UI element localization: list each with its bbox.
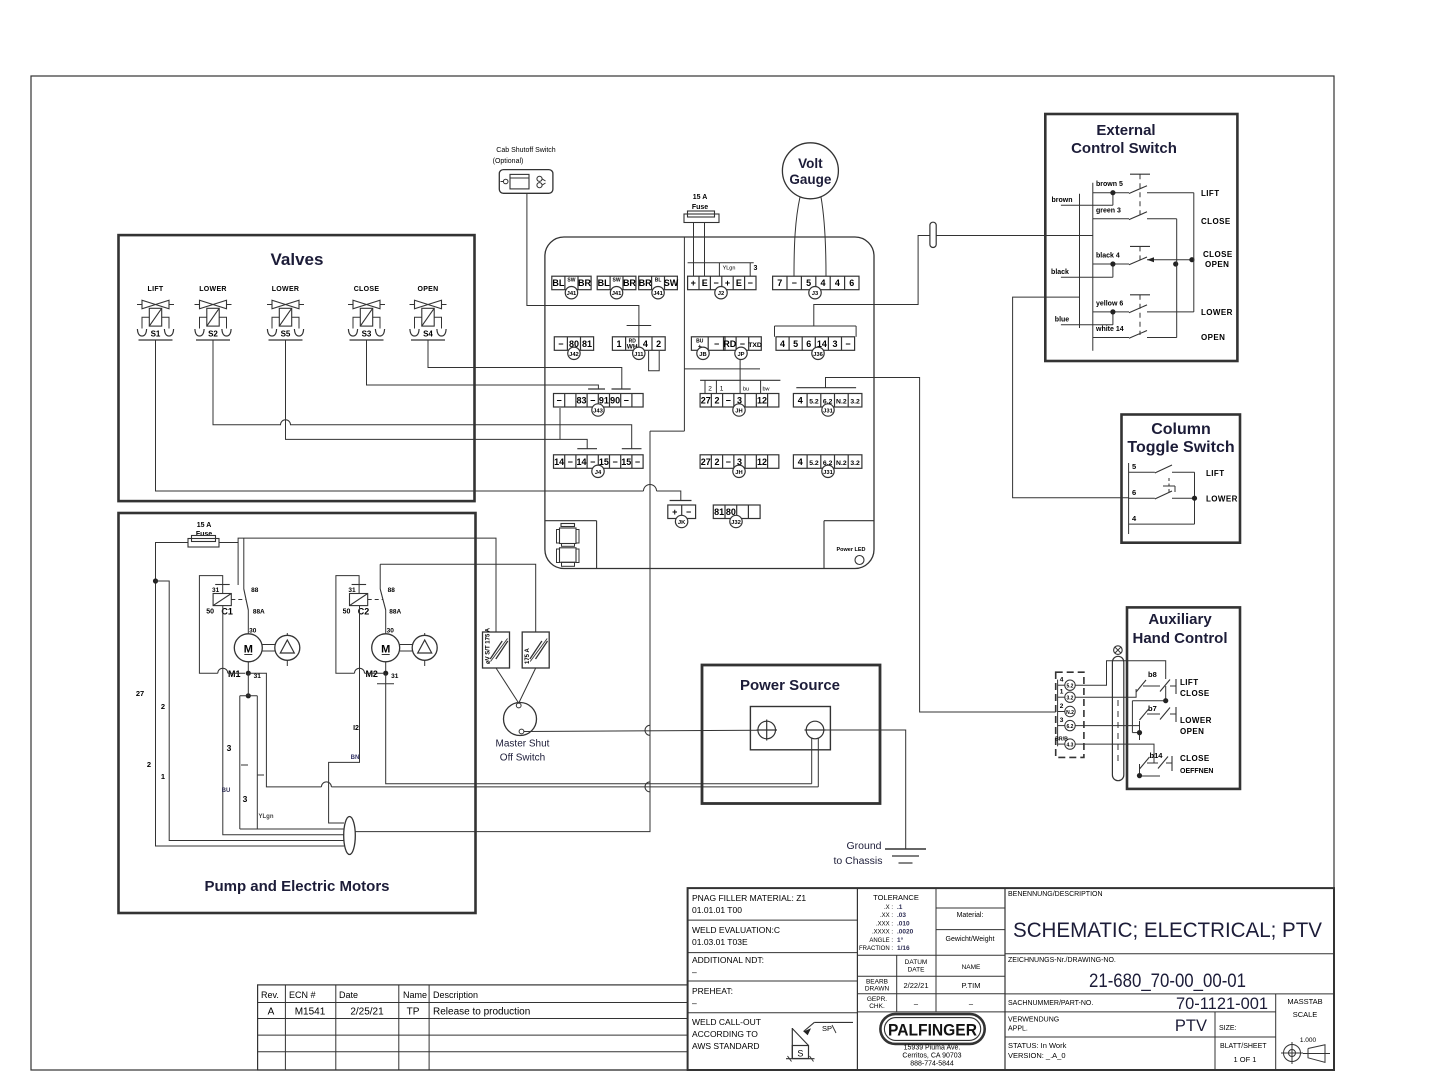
M2 negative junction	[383, 671, 388, 676]
master shut off switch	[496, 703, 550, 764]
svg-text:.010: .010	[897, 920, 910, 927]
svg-text:4: 4	[820, 278, 825, 288]
relay footprint	[557, 524, 580, 567]
CTS pin 6 row (LOWER)	[1129, 488, 1195, 499]
svg-text:6: 6	[849, 278, 854, 288]
aux pin4 wire to switch b8	[1075, 661, 1166, 686]
svg-text:SW: SW	[613, 278, 621, 284]
svg-text:b14: b14	[1150, 751, 1164, 760]
wire from S5 to connector J4	[286, 340, 588, 449]
Cab Shutoff Switch (Optional)	[493, 147, 556, 193]
svg-text:black: black	[1051, 269, 1069, 276]
title block outline	[688, 888, 1334, 1070]
svg-text:−: −	[590, 457, 595, 467]
svg-text:Power Source: Power Source	[740, 677, 840, 694]
svg-text:S5: S5	[281, 330, 291, 339]
ECS brown pigtail	[1052, 193, 1113, 206]
wire from cab shutoff switch to J11	[527, 193, 639, 325]
svg-text:VERWENDUNG: VERWENDUNG	[1008, 1017, 1059, 1024]
wire 27 from fuse to cable bundle	[136, 543, 344, 847]
svg-text:12: 12	[757, 457, 767, 467]
contactor C1 coil	[206, 585, 246, 617]
svg-text:88A: 88A	[389, 609, 401, 616]
svg-text:50: 50	[206, 609, 214, 616]
M1 negative junction	[246, 671, 251, 676]
svg-text:LOWER: LOWER	[272, 286, 300, 293]
aux connector pins	[1055, 677, 1075, 750]
svg-text:N.2: N.2	[836, 460, 847, 467]
External Control Switch title	[1071, 122, 1177, 157]
svg-text:JB: JB	[699, 352, 706, 358]
svg-text:81: 81	[714, 507, 724, 517]
ECS blue pigtail	[1055, 312, 1113, 325]
svg-text:5: 5	[806, 278, 811, 288]
svg-text:1°: 1°	[897, 936, 904, 944]
svg-text:YLgn: YLgn	[723, 266, 736, 272]
svg-text:+: +	[672, 507, 677, 517]
C2 terminal 31 loop wire to M2 negative	[336, 576, 359, 674]
svg-text:5.2: 5.2	[809, 460, 819, 467]
wire from J31 to auxiliary hand control pin 2	[874, 378, 1056, 713]
connector J3	[773, 276, 859, 299]
svg-text:J42: J42	[569, 352, 579, 358]
svg-text:YLgn: YLgn	[259, 814, 274, 820]
svg-text:JK: JK	[678, 520, 686, 526]
svg-text:27: 27	[136, 689, 144, 698]
svg-text:TOLERANCE: TOLERANCE	[873, 893, 919, 902]
svg-text:CLOSE: CLOSE	[1180, 689, 1210, 698]
terminal bar above J31 and wire to auxiliary hand control	[796, 378, 874, 388]
svg-text:Control Switch: Control Switch	[1071, 140, 1177, 157]
power LED compartment	[824, 521, 874, 569]
svg-text:OPEN: OPEN	[417, 286, 438, 293]
svg-text:Hand Control: Hand Control	[1133, 630, 1228, 647]
C1 terminal 50 return wire to cable bundle	[223, 606, 344, 835]
valve solenoid S2 (LOWER)	[195, 286, 232, 340]
motor M1	[228, 628, 262, 681]
wire from 15A fuse to contactor C1 and 175A fuse	[219, 538, 496, 632]
svg-text:1: 1	[720, 386, 724, 393]
svg-text:SACHNUMMER/PART-NO.: SACHNUMMER/PART-NO.	[1008, 1000, 1093, 1007]
ECS switch row brown 5 (LIFT)	[1093, 181, 1194, 193]
wire from S4 to connector J43	[428, 340, 622, 389]
svg-text:LOWER: LOWER	[199, 286, 227, 293]
svg-text:15939 Piuma Ave.: 15939 Piuma Ave.	[904, 1045, 961, 1052]
svg-text:Fuse: Fuse	[196, 531, 212, 538]
svg-text:1: 1	[616, 339, 621, 349]
C1 terminal 31 loop wire to M1 negative	[199, 576, 222, 674]
svg-text:1/16: 1/16	[897, 945, 910, 952]
svg-text:bw: bw	[762, 387, 769, 393]
svg-text:15: 15	[621, 457, 631, 467]
svg-text:Power LED: Power LED	[836, 547, 865, 553]
connector J42	[554, 337, 593, 360]
ECS function labels	[1201, 189, 1233, 342]
wire from S3 to connector J43	[367, 340, 599, 389]
connector J32	[713, 505, 760, 528]
svg-text:+: +	[691, 278, 696, 288]
ECS right bus A	[1193, 193, 1195, 312]
svg-text:.XXXX :: .XXXX :	[872, 930, 893, 936]
svg-text:J36: J36	[813, 352, 823, 358]
Column Toggle Switch box	[1122, 415, 1241, 543]
svg-text:LIFT: LIFT	[1201, 189, 1219, 198]
svg-text:LOWER: LOWER	[1206, 495, 1238, 504]
svg-text:GEPR.: GEPR.	[867, 996, 887, 1003]
svg-text:−: −	[726, 396, 731, 406]
svg-text:J41: J41	[653, 291, 663, 297]
svg-text:88A: 88A	[253, 609, 265, 616]
svg-text:S4: S4	[423, 330, 433, 339]
connector JK	[668, 505, 696, 528]
date name rows	[857, 955, 1005, 1012]
svg-text:N.2: N.2	[836, 399, 847, 406]
svg-text:BL: BL	[655, 278, 662, 284]
svg-text:−: −	[590, 396, 595, 406]
svg-text:BEARB: BEARB	[866, 979, 888, 986]
wire from cable bundle to control board	[355, 431, 650, 831]
Auxiliary Hand Control box	[1127, 607, 1240, 789]
svg-text:6: 6	[806, 339, 811, 349]
M1 return wire to battery negative (lower)	[248, 673, 321, 787]
M1 second junction	[246, 693, 251, 698]
aux junction dots	[1137, 698, 1168, 778]
CTS pin bus	[1128, 463, 1130, 534]
inline connector capsule on ECS wire	[930, 222, 936, 247]
connector JB	[691, 337, 725, 360]
wire from S1 to connector JK	[156, 340, 644, 491]
junction at wire 27	[153, 578, 158, 583]
svg-text:LIFT: LIFT	[1180, 678, 1198, 687]
ECS switch row green 3 (CLOSE)	[1093, 207, 1177, 219]
svg-text:Name: Name	[403, 990, 427, 1000]
svg-text:.XX :: .XX :	[880, 913, 893, 919]
revision A row	[268, 1007, 531, 1018]
valve solenoid S1 (LIFT)	[137, 286, 174, 340]
ECS actuator dashed links	[1130, 174, 1150, 335]
svg-text:30: 30	[249, 628, 257, 635]
svg-text:DATUM: DATUM	[905, 959, 928, 966]
svg-text:83: 83	[576, 396, 586, 406]
title block left column texts	[692, 893, 806, 1051]
svg-text:PTV: PTV	[1175, 1017, 1207, 1035]
svg-text:−: −	[714, 339, 719, 349]
CTS labels	[1206, 469, 1238, 504]
svg-text:6: 6	[1132, 488, 1136, 497]
svg-text:Volt: Volt	[798, 156, 823, 171]
svg-text:31: 31	[254, 673, 262, 680]
terminal bar above J2	[688, 263, 758, 276]
cable bundle grommet	[344, 817, 356, 855]
svg-text:5: 5	[793, 339, 798, 349]
wire from J36 to External Control Switch	[874, 236, 1093, 305]
svg-text:AWS STANDARD: AWS STANDARD	[692, 1041, 760, 1051]
svg-text:J31: J31	[823, 409, 833, 415]
svg-text:7: 7	[777, 278, 782, 288]
svg-text:15 A: 15 A	[693, 194, 708, 201]
C2 contact upper lead	[379, 564, 381, 589]
svg-text:3: 3	[227, 743, 232, 753]
svg-text:14: 14	[576, 457, 586, 467]
svg-text:27: 27	[701, 396, 711, 406]
svg-text:4: 4	[798, 396, 803, 406]
svg-text:Toggle Switch: Toggle Switch	[1127, 439, 1234, 456]
svg-text:Column: Column	[1151, 421, 1211, 438]
svg-text:−: −	[686, 507, 691, 517]
svg-text:LIFT: LIFT	[148, 286, 164, 293]
revision table	[258, 985, 688, 1070]
title block left column rows	[688, 920, 858, 1013]
svg-text:bu: bu	[743, 387, 749, 393]
svg-text:–: –	[692, 998, 697, 1008]
Column Toggle Switch title	[1127, 421, 1234, 456]
svg-text:31: 31	[212, 587, 220, 594]
svg-text:.0020: .0020	[897, 929, 914, 936]
Valves enclosure box	[119, 235, 475, 501]
Power Source box	[702, 665, 880, 804]
ECS switch row black 4 (CLOSE/OPEN)	[1093, 253, 1193, 265]
aux connector dashed box	[1056, 672, 1084, 757]
svg-text:.XXX :: .XXX :	[876, 921, 893, 927]
svg-text:DRAWN: DRAWN	[865, 986, 890, 993]
aux function labels	[1180, 678, 1213, 775]
valve solenoid S5 (LOWER)	[267, 286, 304, 340]
svg-text:−: −	[748, 278, 753, 288]
svg-text:VERSION: _.A_0: VERSION: _.A_0	[1008, 1051, 1066, 1060]
svg-text:S2: S2	[208, 330, 218, 339]
svg-text:white 14: white 14	[1095, 326, 1124, 333]
svg-text:CLOSE: CLOSE	[1180, 754, 1210, 763]
Pump and Electric Motors enclosure box	[119, 513, 476, 913]
hydraulic pump of M1	[262, 633, 300, 666]
svg-text:Off Switch: Off Switch	[500, 753, 545, 764]
svg-text:5: 5	[1132, 462, 1136, 471]
svg-text:ECN #: ECN #	[289, 990, 316, 1000]
svg-text:2: 2	[161, 702, 165, 711]
svg-text:BR: BR	[578, 278, 591, 288]
svg-text:1.000: 1.000	[1300, 1037, 1317, 1044]
svg-text:CLOSE: CLOSE	[354, 286, 380, 293]
svg-text:BR: BR	[639, 278, 652, 288]
svg-text:Material:: Material:	[957, 912, 984, 919]
svg-text:BL: BL	[552, 278, 564, 288]
svg-text:Date: Date	[339, 990, 358, 1000]
svg-text:−: −	[624, 396, 629, 406]
application cell	[1005, 1012, 1276, 1070]
svg-text:31: 31	[348, 587, 356, 594]
svg-text:BR: BR	[623, 278, 636, 288]
ECS black pigtail	[1051, 264, 1113, 277]
svg-text:J11: J11	[634, 352, 644, 358]
svg-text:12: 12	[757, 396, 767, 406]
svg-text:Gewicht/Weight: Gewicht/Weight	[946, 936, 995, 943]
svg-text:APPL.: APPL.	[1008, 1026, 1028, 1033]
contactor C2 coil	[343, 585, 383, 617]
svg-text:−: −	[612, 457, 617, 467]
svg-text:6.2: 6.2	[1067, 724, 1074, 730]
contactor C1 contact 88/88A	[244, 587, 265, 631]
ground to chassis symbol	[885, 849, 926, 863]
svg-text:4: 4	[835, 278, 840, 288]
svg-text:FRACTION :: FRACTION :	[859, 946, 893, 952]
revision table header	[261, 990, 478, 1000]
svg-text:81: 81	[582, 339, 592, 349]
svg-text:DATE: DATE	[908, 967, 926, 974]
link wire J43 to J4 bar	[559, 408, 561, 439]
ECS internal buses	[1045, 183, 1093, 351]
svg-text:Description: Description	[433, 990, 478, 1000]
connector J11	[612, 337, 665, 360]
svg-text:.03: .03	[897, 912, 906, 919]
svg-text:2: 2	[708, 386, 712, 393]
hydraulic pump of M2	[400, 633, 438, 666]
svg-text:M1: M1	[228, 669, 241, 679]
svg-text:ZEICHNUNGS-Nr./DRAWING-NO.: ZEICHNUNGS-Nr./DRAWING-NO.	[1008, 957, 1116, 964]
svg-text:BLATT/SHEET: BLATT/SHEET	[1220, 1043, 1267, 1050]
svg-text:14: 14	[554, 457, 564, 467]
svg-text:4.3: 4.3	[1067, 743, 1074, 749]
svg-text:STATUS: In Work: STATUS: In Work	[1008, 1041, 1067, 1050]
svg-text:Ground: Ground	[846, 840, 881, 852]
CTS right link	[1194, 472, 1196, 524]
svg-text:PNAG FILLER MATERIAL: Z1: PNAG FILLER MATERIAL: Z1	[692, 893, 806, 903]
link wire below JB to board bottom wire	[683, 237, 685, 431]
tolerance table	[857, 888, 1005, 1012]
svg-text:SIZE:: SIZE:	[1219, 1025, 1237, 1032]
svg-text:BU: BU	[222, 788, 231, 794]
svg-text:BENENNUNG/DESCRIPTION: BENENNUNG/DESCRIPTION	[1008, 891, 1103, 898]
valve solenoid S3 (CLOSE)	[348, 286, 385, 340]
address	[902, 1045, 961, 1068]
svg-text:green 3: green 3	[1096, 207, 1121, 214]
volt gauge leads to J3	[794, 197, 826, 276]
svg-text:31: 31	[391, 673, 399, 680]
svg-text:MASSTAB: MASSTAB	[1287, 997, 1322, 1006]
wires master switch to 175A fuses	[496, 668, 536, 703]
connector JH	[700, 394, 779, 417]
svg-text:E: E	[702, 278, 708, 288]
svg-text:3: 3	[754, 265, 758, 272]
svg-text:Gauge: Gauge	[789, 172, 832, 187]
svg-text:M2: M2	[365, 669, 378, 679]
svg-text:ACCORDING TO: ACCORDING TO	[692, 1029, 758, 1039]
svg-text:J43: J43	[593, 409, 603, 415]
ECS switch row white 14 (OPEN)	[1093, 326, 1177, 338]
svg-text:CLOSE: CLOSE	[1203, 250, 1233, 259]
svg-text:J41: J41	[612, 291, 622, 297]
connector J43	[554, 394, 644, 417]
connector J36	[776, 337, 855, 360]
svg-text:TXD: TXD	[748, 342, 762, 349]
svg-text:LOWER: LOWER	[1180, 716, 1212, 725]
status cell	[1008, 1041, 1267, 1064]
svg-text:P.TIM: P.TIM	[961, 981, 980, 990]
CTS pin 5 row (LIFT)	[1129, 462, 1195, 473]
CTS actuator	[1163, 478, 1175, 494]
svg-text:Release to production: Release to production	[433, 1007, 530, 1018]
ECS switch row yellow 6 (LOWER)	[1093, 300, 1194, 312]
svg-text:TP: TP	[407, 1007, 420, 1018]
svg-text:JP: JP	[737, 352, 744, 358]
relay compartment on board	[545, 521, 597, 569]
svg-text:BR/B: BR/B	[1055, 737, 1068, 743]
svg-text:88: 88	[388, 587, 396, 594]
svg-text:M1541: M1541	[295, 1007, 326, 1018]
svg-text:1: 1	[1060, 689, 1064, 696]
svg-text:b8: b8	[1148, 670, 1157, 679]
15A fuse above control board	[684, 194, 719, 223]
contactor C2 contact 88/88A	[380, 587, 401, 631]
Volt Gauge	[782, 143, 838, 199]
svg-text:−: −	[568, 457, 573, 467]
svg-text:3.2: 3.2	[850, 460, 860, 467]
fuse wires to J2	[694, 223, 705, 277]
aux switch b7 (LOWER/OPEN)	[1140, 704, 1177, 722]
svg-text:PALFINGER: PALFINGER	[888, 1022, 977, 1040]
175A fuse 2	[522, 632, 549, 668]
svg-text:3: 3	[243, 794, 248, 804]
svg-text:Fuse: Fuse	[692, 204, 708, 211]
ground label	[833, 840, 882, 867]
svg-text:JH: JH	[735, 409, 742, 415]
wire from ECS to column toggle switch	[1013, 297, 1129, 498]
svg-text:LOWER: LOWER	[1201, 308, 1233, 317]
M2 return wire to battery negative (upper)	[386, 673, 812, 784]
svg-text:blue: blue	[1055, 317, 1069, 324]
svg-text:ANGLE :: ANGLE :	[869, 938, 893, 944]
connector J4	[554, 455, 644, 478]
svg-text:4: 4	[798, 457, 803, 467]
svg-text:2/25/21: 2/25/21	[350, 1007, 384, 1018]
svg-text:3: 3	[1060, 717, 1064, 724]
motor M2	[365, 628, 399, 681]
PALFINGER logo	[880, 1014, 984, 1044]
svg-text:1: 1	[161, 772, 165, 781]
svg-text:J41: J41	[567, 291, 577, 297]
Auxiliary Hand Control title	[1133, 611, 1228, 647]
Power LED	[836, 547, 865, 565]
svg-text:ADDITIONAL NDT:: ADDITIONAL NDT:	[692, 955, 764, 965]
svg-text:1 OF 1: 1 OF 1	[1234, 1055, 1257, 1064]
wire master switch to battery positive	[524, 730, 758, 731]
svg-text:NAME: NAME	[962, 964, 981, 971]
svg-text:Rev.: Rev.	[261, 990, 279, 1000]
svg-text:30: 30	[387, 628, 395, 635]
connector JP	[723, 337, 762, 360]
svg-text:RD: RD	[723, 339, 736, 349]
svg-text:OPEN: OPEN	[1205, 260, 1229, 269]
connector J41	[552, 276, 592, 299]
svg-text:.X :: .X :	[884, 905, 893, 911]
svg-text:OPEN: OPEN	[1201, 333, 1225, 342]
svg-text:4: 4	[1060, 677, 1064, 684]
valve solenoid S4 (OPEN)	[410, 286, 447, 340]
svg-text:3: 3	[832, 339, 837, 349]
svg-text:brown 5: brown 5	[1096, 181, 1123, 188]
description cell	[1005, 891, 1334, 954]
svg-text:M: M	[381, 644, 390, 656]
svg-text:SCHEMATIC; ELECTRICAL; PTV: SCHEMATIC; ELECTRICAL; PTV	[1013, 919, 1322, 942]
svg-text:PREHEAT:: PREHEAT:	[692, 986, 733, 996]
svg-text:E: E	[736, 278, 742, 288]
svg-text:50: 50	[343, 609, 351, 616]
svg-text:yellow 6: yellow 6	[1096, 300, 1123, 307]
svg-text:S: S	[797, 1049, 803, 1059]
svg-text:A: A	[268, 1007, 275, 1018]
svg-text:27: 27	[701, 457, 711, 467]
battery	[750, 707, 830, 750]
aux linking wires	[1132, 686, 1165, 776]
